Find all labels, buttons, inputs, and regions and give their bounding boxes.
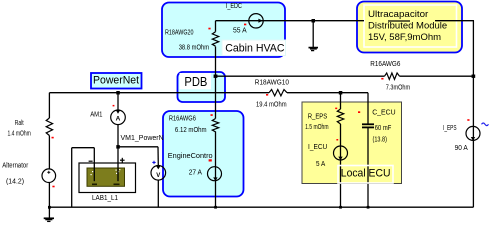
svg-text:I_ECU: I_ECU <box>308 144 327 151</box>
svg-text:Local ECU: Local ECU <box>341 167 391 179</box>
svg-text:38.8 mOhm: 38.8 mOhm <box>179 45 210 52</box>
svg-text:15V, 58F,9mOhm: 15V, 58F,9mOhm <box>368 32 441 43</box>
svg-text:EngineContro: EngineContro <box>168 153 213 160</box>
svg-text:C_ECU: C_ECU <box>372 110 395 117</box>
svg-text:R16AWG6: R16AWG6 <box>370 61 400 68</box>
svg-text:I_EDC: I_EDC <box>226 3 242 10</box>
svg-text:VM1_PowerN: VM1_PowerN <box>121 135 164 142</box>
svg-text:7.3mOhm: 7.3mOhm <box>386 84 410 91</box>
svg-text:LAB1_L1: LAB1_L1 <box>92 195 118 202</box>
svg-text:R_EPS: R_EPS <box>308 113 328 120</box>
svg-text:(13.8): (13.8) <box>373 136 388 143</box>
svg-text:1.5 mOhm: 1.5 mOhm <box>305 124 329 131</box>
svg-text:PowerNet: PowerNet <box>93 75 139 87</box>
svg-text:1.4 mOhm: 1.4 mOhm <box>8 130 31 137</box>
svg-text:Ultracapacitor: Ultracapacitor <box>368 9 428 20</box>
svg-text:Ralt: Ralt <box>15 120 24 127</box>
svg-text:55 A: 55 A <box>233 28 247 35</box>
svg-text:19.4 mOhm: 19.4 mOhm <box>256 102 287 109</box>
svg-text:I_EPS: I_EPS <box>443 125 457 132</box>
svg-text:60 mF: 60 mF <box>375 125 392 132</box>
svg-text:R18AWG10: R18AWG10 <box>255 79 289 86</box>
svg-text:6.12 mOhm: 6.12 mOhm <box>175 127 207 134</box>
svg-text:90 A: 90 A <box>455 145 468 152</box>
svg-text:5 A: 5 A <box>316 161 325 168</box>
svg-text:27 A: 27 A <box>189 170 203 177</box>
svg-text:R18AWG20: R18AWG20 <box>165 30 194 37</box>
svg-text:Distributed Module: Distributed Module <box>368 20 447 31</box>
svg-text:Alternator: Alternator <box>2 162 28 169</box>
svg-text:R16AWG6: R16AWG6 <box>169 115 196 122</box>
svg-text:AM1: AM1 <box>90 112 102 119</box>
svg-text:V: V <box>156 173 160 179</box>
svg-text:Cabin HVAC: Cabin HVAC <box>225 42 284 54</box>
svg-text:PDB: PDB <box>184 74 207 89</box>
svg-text:A: A <box>116 116 121 123</box>
svg-text:(14.2): (14.2) <box>6 178 24 185</box>
